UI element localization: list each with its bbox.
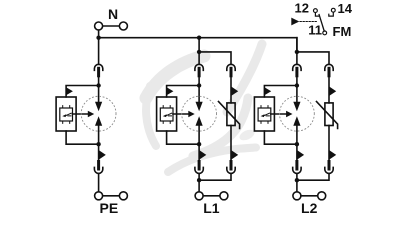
FM contact 12 circle (314, 9, 318, 13)
box F1 inner tick top-left (62, 106, 64, 108)
box F1 inner tick bottom-left (62, 121, 64, 123)
wire B3 gap bottom (296, 126, 298, 162)
plug pin top R2 (230, 68, 233, 76)
plug socket top B2 (195, 64, 203, 70)
node B2 varistor tee (197, 50, 201, 54)
svg-text:L2: L2 (301, 200, 318, 216)
spark gap F1 upper electrode (95, 102, 102, 111)
monitoring box F2 inner (160, 108, 173, 121)
wire bus horizontal (99, 38, 297, 52)
plug pin bottom B2 (198, 162, 201, 170)
wire B1 box bottom loop (66, 131, 99, 144)
plug socket top B1 (94, 64, 102, 70)
monitoring box F3 outer (254, 97, 274, 131)
disconnect arrow B3 lower (297, 150, 304, 160)
plug pin bottom R2 (230, 162, 233, 170)
wire B3 box bottom loop (264, 131, 297, 144)
svg-text:N: N (108, 6, 118, 22)
terminal PE left circle (95, 192, 103, 200)
trigger arrow to gap F1 (73, 113, 90, 115)
plug pin top B3 (295, 68, 298, 76)
wire B2 to L1 (198, 174, 200, 192)
box F2 trigger glyph (166, 113, 172, 116)
box F1 inner tick top-right (69, 106, 71, 108)
plug pin bottom R3 (328, 162, 331, 170)
wire B3 to L2 (296, 174, 298, 192)
monitoring box F1 inner (60, 108, 73, 121)
disconnect arrow on box stub F3 (264, 87, 271, 95)
disconnect arrow R2 upper (231, 86, 238, 96)
wire L1 pair link (203, 195, 219, 197)
svg-text:11: 11 (308, 23, 322, 38)
dashed circle F2 (182, 96, 217, 131)
dashed circle F1 (81, 96, 116, 131)
node bus-B2 (197, 36, 201, 40)
disconnect arrow on box stub F2 (167, 87, 174, 95)
wire B1 to PE (98, 174, 100, 192)
monitoring box F2 outer (157, 97, 177, 131)
node B3 box-bottom tee (295, 142, 299, 146)
plug socket top R3 (325, 64, 333, 70)
terminal N right circle (119, 22, 127, 30)
spark gap F2 lower electrode (196, 116, 203, 126)
plug pin bottom B3 (295, 162, 298, 170)
varistor R2 body (227, 103, 235, 126)
spark gap F2 upper electrode (196, 102, 203, 111)
wire B3 top (296, 38, 298, 65)
wire B3 (296, 76, 298, 102)
node B3 varistor tee (295, 50, 299, 54)
wire PE pair link (103, 195, 119, 197)
terminal N left circle (95, 22, 103, 30)
dashed circle F3 (280, 96, 315, 131)
FM contact 12 seat (315, 13, 318, 16)
varistor R3 body (325, 103, 333, 126)
FM mechanical dashed link (300, 21, 317, 23)
wire L2 pair link (301, 195, 317, 197)
wire N pair link (103, 25, 119, 27)
box F3 inner tick top-right (267, 106, 269, 108)
trigger arrow to gap F3 (271, 113, 288, 115)
wire B2 gap bottom (198, 126, 200, 162)
svg-text:L1: L1 (203, 200, 220, 216)
trigger arrow to gap F2 (173, 113, 190, 115)
plug socket bottom B3 (293, 167, 301, 173)
disconnect arrow on box stub F1 (66, 87, 73, 95)
wire R2 lower (230, 126, 232, 162)
node B2 box-bottom tee (197, 142, 201, 146)
wire B2 box bottom loop (167, 131, 200, 144)
FM contact 14 seat (329, 12, 334, 16)
terminal L1 left circle (195, 192, 203, 200)
box F1 inner tick bottom-right (69, 121, 71, 123)
disconnect arrow B2 lower (199, 150, 206, 160)
plug socket top B3 (293, 64, 301, 70)
terminal PE right circle (119, 192, 127, 200)
box F2 inner tick bottom-left (162, 121, 164, 123)
node B3 varistor return (295, 178, 299, 182)
node bus-B1 (96, 36, 100, 40)
wire B2 top (198, 38, 200, 65)
svg-text:12: 12 (295, 0, 309, 15)
spark gap F1 lower electrode (95, 116, 102, 126)
monitoring box F1 outer (56, 97, 76, 131)
wire R3 lower (328, 126, 330, 162)
plug socket bottom B1 (94, 167, 102, 173)
wire B2 box top loop (167, 86, 200, 98)
monitoring box F3 inner (258, 108, 271, 121)
disconnect arrow R2 lower (231, 150, 238, 160)
box F3 inner tick bottom-right (267, 121, 269, 123)
box F3 trigger glyph (264, 113, 270, 116)
plug socket bottom R3 (325, 167, 333, 173)
terminal L1 right circle (220, 192, 228, 200)
varistor path B3 : wire over (297, 52, 329, 64)
box F3 inner tick bottom-left (260, 121, 262, 123)
wire B1 (98, 76, 100, 102)
plug pin top B1 (97, 68, 100, 76)
varistor R3 diagonal (317, 102, 338, 129)
wire R3 return to L2 (297, 174, 329, 181)
FM contact 14 circle (331, 8, 335, 12)
disconnect arrow R3 upper (329, 86, 336, 96)
plug socket bottom B2 (195, 167, 203, 173)
plug pin top R3 (328, 68, 331, 76)
node B3 box-top tee (295, 83, 299, 87)
watermark swirl (146, 44, 262, 172)
box F2 inner tick top-left (162, 106, 164, 108)
terminal L2 left circle (293, 192, 301, 200)
plug socket top R2 (227, 64, 235, 70)
plug pin bottom B1 (97, 162, 100, 170)
wire B3 box top loop (264, 86, 297, 98)
FM lever (319, 15, 324, 31)
wire B1 box top loop (66, 86, 99, 98)
wire B1 gap bottom (98, 126, 100, 162)
disconnect arrow R3 lower (329, 150, 336, 160)
disconnect arrow B1 lower (99, 150, 106, 160)
wire N down to bus (98, 30, 100, 38)
box F2 inner tick top-right (169, 106, 171, 108)
plug socket bottom R2 (227, 167, 235, 173)
node B2 varistor return (197, 178, 201, 182)
svg-text:FM: FM (333, 24, 352, 39)
wire R3 upper (328, 76, 330, 103)
box F3 inner tick top-left (260, 106, 262, 108)
svg-text:PE: PE (100, 200, 119, 216)
spark gap F3 upper electrode (293, 102, 300, 111)
varistor R2 diagonal (219, 102, 240, 129)
terminal L2 right circle (318, 192, 326, 200)
FM alarm arrow (291, 18, 299, 26)
varistor path B2 : wire over (199, 52, 231, 64)
wire B2 (198, 76, 200, 102)
wire R2 return to L1 (199, 174, 231, 181)
node B1 box-bottom tee (96, 142, 100, 146)
FM contact 11 circle (323, 31, 327, 35)
wire B1 top (98, 38, 100, 65)
node B2 box-top tee (197, 83, 201, 87)
box F2 inner tick bottom-right (169, 121, 171, 123)
wire R2 upper (230, 76, 232, 103)
box F1 trigger glyph (66, 113, 72, 116)
node B1 box-top tee (96, 83, 100, 87)
plug pin top B2 (198, 68, 201, 76)
svg-text:14: 14 (338, 1, 353, 16)
spark gap F3 lower electrode (293, 116, 300, 126)
